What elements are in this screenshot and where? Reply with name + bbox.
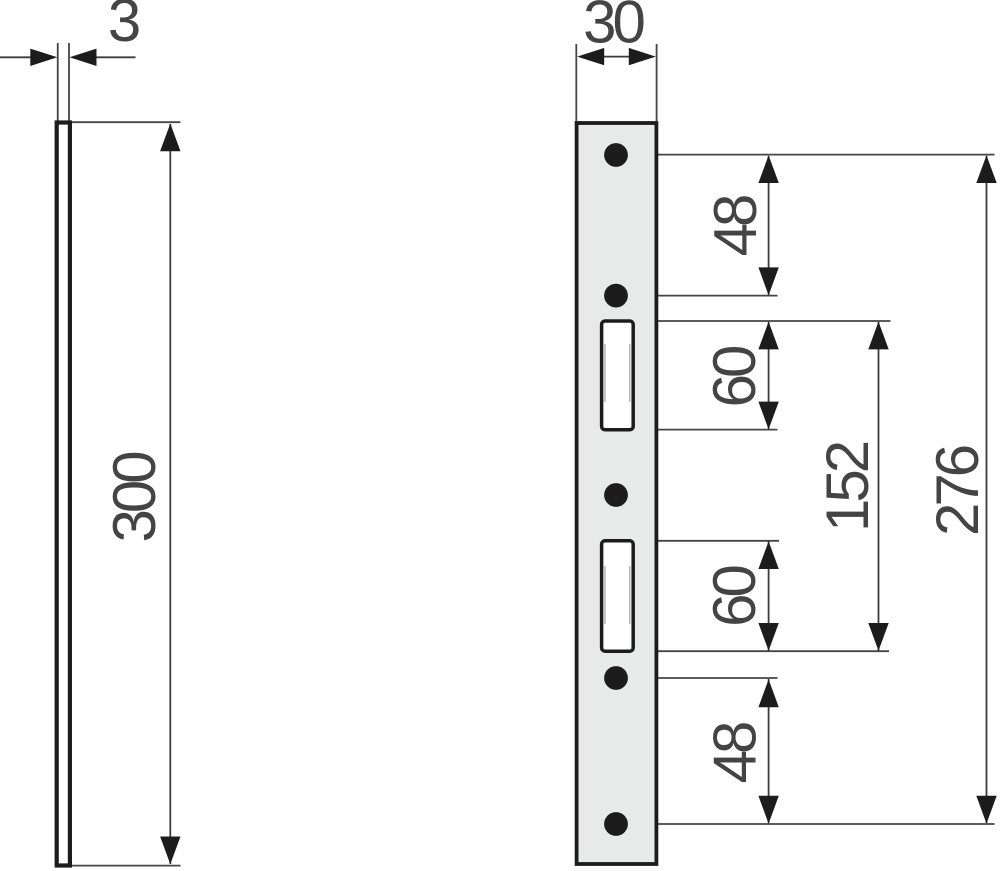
svg-text:300: 300 <box>101 452 168 543</box>
svg-text:276: 276 <box>924 446 991 536</box>
svg-text:30: 30 <box>583 0 644 56</box>
svg-text:48: 48 <box>702 196 769 256</box>
svg-text:60: 60 <box>701 346 768 407</box>
svg-text:152: 152 <box>814 442 881 532</box>
svg-text:48: 48 <box>702 723 769 783</box>
svg-text:3: 3 <box>108 0 139 54</box>
svg-text:60: 60 <box>701 566 768 627</box>
